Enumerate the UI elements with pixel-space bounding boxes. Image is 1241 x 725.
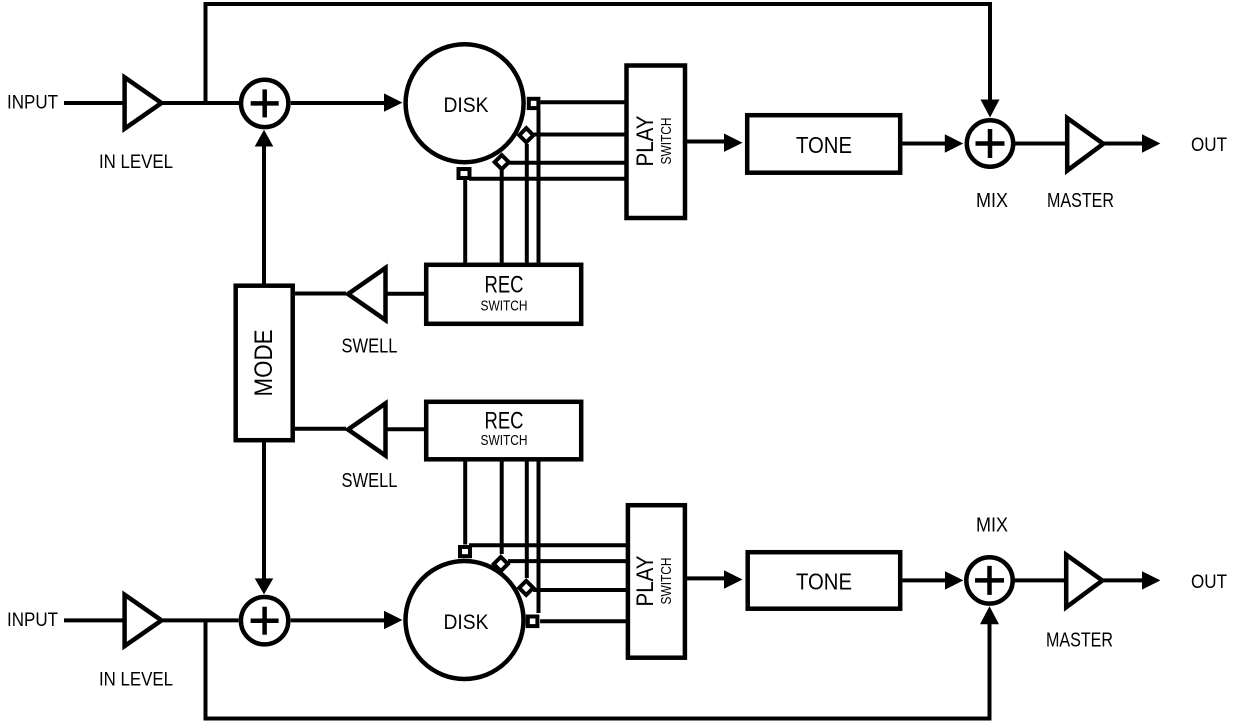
REC SWITCH box (bottom) bbox=[426, 402, 581, 460]
wire head4 to PLAY (top) bbox=[469, 177, 625, 181]
arrowhead into DISK (top) bbox=[384, 93, 402, 111]
svg-text:OUT: OUT bbox=[1191, 571, 1227, 593]
PLAY SWITCH box (bottom) bbox=[628, 505, 685, 658]
svg-text:SWITCH: SWITCH bbox=[659, 558, 675, 605]
wire SWELL to REC (top) bbox=[386, 292, 425, 296]
REC SWITCH box (top) bbox=[426, 265, 581, 324]
wire input to in-level amp (bottom) bbox=[64, 618, 123, 622]
svg-text:MASTER: MASTER bbox=[1047, 189, 1114, 212]
PLAY SWITCH box (top) bbox=[627, 66, 686, 219]
wire summing node to DISK (top) bbox=[291, 101, 390, 105]
svg-text:INPUT: INPUT bbox=[7, 93, 58, 114]
wire head3 up to REC (bottom) bbox=[500, 461, 504, 554]
summing node (bottom) bbox=[241, 597, 288, 644]
arrowhead down into summing node (bottom) bbox=[255, 578, 274, 594]
wire feedback drop into MIX (top) bbox=[988, 4, 992, 104]
svg-text:IN LEVEL: IN LEVEL bbox=[99, 669, 173, 691]
svg-text:MIX: MIX bbox=[976, 189, 1008, 212]
tape head 4 (bottom disk, top) bbox=[460, 547, 470, 556]
wire MIX to MASTER (bottom) bbox=[1013, 578, 1066, 582]
amplifier MASTER (top) bbox=[1067, 118, 1103, 171]
arrowhead into MIX (top) bbox=[945, 134, 963, 152]
svg-text:SWITCH: SWITCH bbox=[659, 118, 675, 165]
wire bottom feedback horizontal bbox=[204, 717, 992, 721]
svg-text:SWELL: SWELL bbox=[342, 336, 398, 358]
svg-text:IN LEVEL: IN LEVEL bbox=[99, 151, 173, 173]
svg-text:TONE: TONE bbox=[796, 132, 852, 158]
svg-text:MIX: MIX bbox=[976, 514, 1008, 537]
wire head1 to PLAY (top) bbox=[540, 100, 624, 104]
wire head3 to PLAY (bottom) bbox=[508, 559, 626, 563]
wire input to in-level amp (top) bbox=[64, 101, 123, 105]
wire head2 up to REC (bottom) bbox=[525, 461, 529, 578]
wire feedback tap drop (bottom-left) bbox=[204, 620, 208, 718]
wire head1 up to REC (bottom) bbox=[537, 461, 541, 613]
wire SWELL to REC (bottom) bbox=[386, 427, 425, 431]
wire head2 to PLAY (bottom) bbox=[533, 588, 626, 592]
wire head4 to PLAY (bottom) bbox=[469, 543, 626, 547]
wire TONE to MIX (bottom) bbox=[903, 578, 951, 582]
TONE box (bottom) bbox=[748, 552, 901, 609]
wire amp to summing node (top) bbox=[163, 101, 239, 105]
DISK (top) bbox=[406, 44, 524, 162]
amplifier IN LEVEL (top) bbox=[125, 77, 162, 128]
arrowhead into TONE (top) bbox=[724, 134, 743, 152]
tape head 1 (bottom disk, right) bbox=[528, 617, 538, 627]
wire MODE to SWELL (top) bbox=[295, 292, 346, 296]
svg-text:SWELL: SWELL bbox=[342, 470, 398, 492]
svg-text:SWITCH: SWITCH bbox=[481, 433, 528, 449]
wire top feedback horizontal bbox=[204, 2, 993, 6]
SWELL amplifier (top) bbox=[348, 268, 386, 320]
arrowhead down into MIX (top) bbox=[981, 100, 1000, 118]
wire head1 to PLAY (bottom) bbox=[540, 619, 626, 623]
DISK (bottom) bbox=[406, 561, 524, 679]
SWELL amplifier (bottom) bbox=[348, 403, 386, 455]
wire feedback riser into MIX (bottom) bbox=[988, 620, 992, 719]
wire MASTER to OUT (bottom) bbox=[1102, 578, 1148, 582]
wire PLAY to TONE (bottom) bbox=[685, 576, 730, 580]
wire MODE down to summing node (bottom) bbox=[262, 443, 266, 585]
svg-text:SWITCH: SWITCH bbox=[481, 299, 528, 315]
wire PLAY to TONE (top) bbox=[687, 140, 730, 144]
TONE box (top) bbox=[747, 115, 900, 173]
wire head4 down to REC (top) bbox=[463, 180, 467, 263]
MIX summing node (bottom) bbox=[966, 557, 1012, 603]
wire TONE to MIX (top) bbox=[903, 142, 951, 146]
arrowhead OUT (top) bbox=[1142, 134, 1160, 152]
amplifier IN LEVEL (bottom) bbox=[125, 595, 162, 646]
MODE box bbox=[236, 286, 293, 441]
tape head 3 (top disk, 60deg) bbox=[495, 155, 509, 169]
svg-text:TONE: TONE bbox=[796, 569, 852, 595]
wire from MODE up to summing node (top) bbox=[262, 140, 266, 284]
svg-text:REC: REC bbox=[485, 272, 524, 299]
MIX summing node (top) bbox=[967, 120, 1013, 166]
svg-text:MODE: MODE bbox=[250, 330, 278, 397]
wire MIX to MASTER (top) bbox=[1013, 142, 1066, 146]
summing node (top) bbox=[241, 80, 288, 127]
arrowhead OUT (bottom) bbox=[1142, 571, 1160, 589]
svg-text:DISK: DISK bbox=[444, 93, 490, 117]
arrowhead into DISK (bottom) bbox=[384, 611, 402, 629]
wire MASTER to OUT (top) bbox=[1103, 142, 1148, 146]
arrowhead up into summing node (top) bbox=[255, 130, 274, 147]
wire head3 to PLAY (top) bbox=[509, 161, 625, 165]
tape head 3 (bottom disk, 60deg) bbox=[494, 557, 508, 571]
arrowhead up into MIX (bottom) bbox=[980, 606, 999, 624]
wire head2 to PLAY (top) bbox=[534, 133, 625, 137]
svg-text:REC: REC bbox=[485, 408, 524, 435]
tape head 2 (bottom disk, 30deg) bbox=[519, 581, 533, 595]
svg-text:OUT: OUT bbox=[1191, 134, 1227, 156]
wire summing node to DISK (bottom) bbox=[291, 618, 390, 622]
wire head4 up to REC (bottom) bbox=[463, 461, 467, 545]
svg-text:PLAY: PLAY bbox=[632, 556, 659, 607]
amplifier MASTER (bottom) bbox=[1066, 555, 1102, 608]
wire amp to summing node (bottom) bbox=[163, 618, 239, 622]
wire head2 down to REC (top) bbox=[525, 144, 529, 263]
tape head 4 (top disk, bottom) bbox=[459, 169, 470, 178]
arrowhead into TONE (bottom) bbox=[724, 570, 743, 588]
wire feedback tap riser (top-left) bbox=[204, 4, 208, 105]
svg-text:DISK: DISK bbox=[444, 610, 490, 634]
tape head 1 (top disk, right) bbox=[529, 99, 539, 108]
wire head1 down to REC (top) bbox=[537, 110, 541, 263]
tape head 2 (top disk, 30deg) bbox=[519, 128, 533, 142]
wire MODE to SWELL (bottom) bbox=[295, 427, 346, 431]
svg-text:INPUT: INPUT bbox=[7, 610, 58, 631]
arrowhead into MIX (bottom) bbox=[945, 571, 963, 589]
svg-text:MASTER: MASTER bbox=[1046, 629, 1113, 652]
wire head3 down to REC (top) bbox=[500, 170, 504, 263]
svg-text:PLAY: PLAY bbox=[632, 116, 659, 167]
